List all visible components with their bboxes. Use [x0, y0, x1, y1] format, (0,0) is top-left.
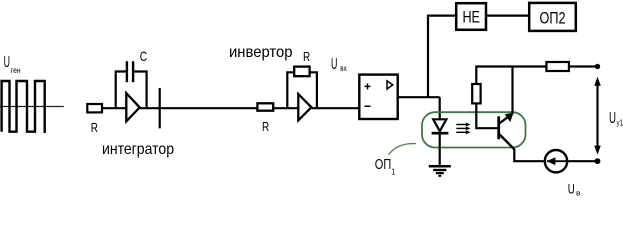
node junction bottom: [595, 158, 601, 164]
transistor Q1 upper lead: [499, 114, 512, 124]
svg-text:1: 1: [391, 167, 395, 177]
transistor Q1 arrow: [505, 113, 514, 123]
svg-text:ОП: ОП: [375, 156, 391, 173]
light arrow 3: [456, 130, 470, 134]
svg-text:U: U: [4, 54, 10, 71]
label Uв: [568, 181, 581, 198]
svg-text:у1: у1: [617, 119, 623, 128]
ground: [429, 166, 451, 176]
wire U1 feedback right branch: [134, 72, 147, 109]
wire U1 feedback left branch: [116, 72, 126, 109]
transistor Q1 base bar: [497, 116, 500, 139]
svg-text:R: R: [303, 49, 310, 64]
comparator amp symbol: [387, 81, 393, 89]
wire R2 to op-amp U2: [273, 107, 298, 109]
optocoupler ОП1 outline: [422, 112, 526, 147]
LED cathode bar: [432, 132, 449, 135]
resistor R1: [87, 104, 102, 112]
source arrow: [547, 160, 567, 162]
wire НЕ to ОП2: [486, 15, 529, 17]
node junction top: [595, 64, 600, 69]
capacitor C plates: [126, 61, 128, 82]
svg-text:R: R: [262, 119, 269, 134]
wire U2 feedback right branch: [310, 72, 317, 108]
wire U1 output to R2: [140, 107, 257, 109]
source Uв circle: [545, 150, 567, 172]
node output bar after integrator: [159, 88, 161, 128]
wire U2 feedback left branch: [287, 72, 294, 108]
light arrow 2: [456, 126, 470, 130]
op-amp U2 triangle: [298, 94, 311, 120]
wire annotation curve to ОП1: [389, 144, 416, 155]
wire R5 to base: [476, 103, 498, 128]
resistor R2: [257, 103, 273, 110]
svg-text:вх: вх: [340, 64, 346, 73]
light arrow 1: [456, 123, 470, 127]
wire U2 output to comparator: [312, 107, 360, 109]
svg-text:U: U: [331, 56, 337, 73]
svg-text:в: в: [576, 188, 581, 197]
svg-text:интегратор: интегратор: [102, 141, 174, 158]
wire generator axis: [0, 106, 64, 108]
comparator U3 box: [359, 75, 397, 119]
wire Uу1 double arrow: [594, 77, 601, 155]
svg-text:C: C: [140, 48, 147, 64]
LED D1: [433, 119, 446, 131]
label ОП1: [375, 156, 396, 177]
resistor R3 feedback: [294, 67, 309, 77]
node Uвх label: [331, 56, 347, 73]
svg-text:ОП2: ОП2: [540, 8, 566, 27]
transistor Q1 lower lead: [499, 134, 515, 150]
block НЕ box: [456, 3, 486, 30]
wire down to LED: [439, 97, 441, 119]
wire source to node: [567, 160, 598, 162]
wire LED to ground: [439, 133, 441, 166]
svg-text:ген: ген: [11, 66, 21, 75]
pin -: [365, 105, 371, 107]
svg-text:R: R: [91, 120, 98, 135]
op-amp U1 triangle: [126, 93, 139, 121]
block ОП2 box: [529, 3, 576, 31]
wire branch up to HE: [428, 16, 456, 98]
label Uу1: [609, 110, 623, 128]
wire R1 to op-amp U1: [102, 107, 126, 109]
resistor R5 vertical: [472, 84, 480, 103]
wire comparator output: [398, 96, 440, 98]
wire top rail: [476, 67, 546, 85]
wire collector up: [511, 67, 513, 114]
svg-text:инвертор: инвертор: [229, 44, 293, 61]
wire emitter down: [514, 149, 545, 161]
generator Uген square-wave: [2, 81, 45, 133]
node Uген label: [4, 54, 21, 75]
svg-text:НЕ: НЕ: [462, 8, 480, 27]
svg-text:U: U: [568, 181, 575, 197]
resistor R4: [546, 62, 569, 71]
pin +: [365, 83, 371, 89]
svg-text:U: U: [609, 110, 616, 127]
